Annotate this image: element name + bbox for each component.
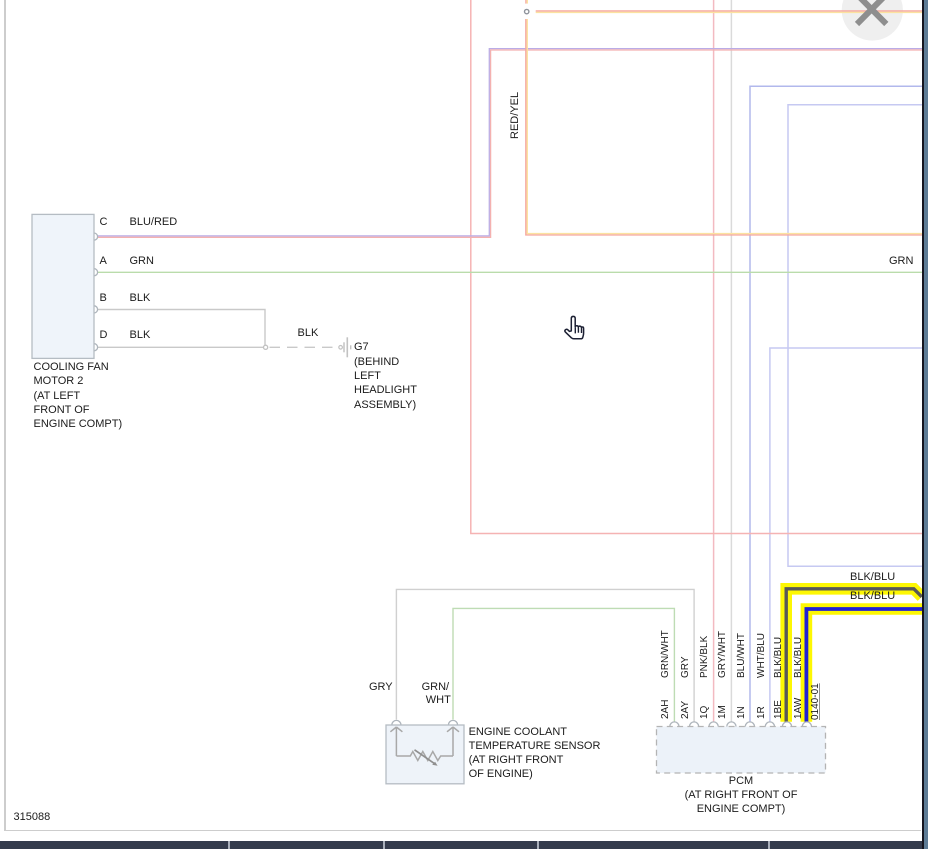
label G7 ground [354, 340, 417, 411]
label GRN right [889, 256, 913, 267]
page border left [4, 0, 6, 831]
thermistor internals [390, 727, 459, 766]
wire BLU/WHT 1N [750, 86, 922, 722]
right sidebar [922, 0, 924, 849]
pin label A [100, 256, 107, 267]
wire RED/YEL main red stripe [526, 19, 923, 235]
bar separator 2 [383, 841, 385, 849]
label RED/YEL rotated [510, 139, 557, 150]
mouse cursor [565, 316, 584, 338]
label BLK/BLU lower [850, 591, 895, 602]
ground G7 symbol [339, 337, 351, 357]
pin label 1R [757, 719, 770, 729]
pin label 1M [718, 719, 732, 729]
label BLK mid [298, 328, 319, 339]
wire RED/YEL main yellow stripe [527, 19, 922, 234]
wire label BLK/BLU [774, 678, 815, 688]
wire label GRN/WHT [661, 678, 709, 688]
pin label 1N [737, 719, 750, 729]
pin label B [100, 293, 107, 304]
wire label BLK/BLU [794, 678, 835, 688]
label BLK [130, 330, 151, 341]
wire BLK dashed to ground [270, 346, 337, 348]
label GRY sensor [369, 682, 393, 693]
wire BLK/BLU 1AW blue core [806, 609, 922, 722]
wire label BLU/WHT [737, 678, 782, 688]
wire GRN/WHT sensor to PCM 2AH [453, 608, 674, 721]
bar separator 1 [228, 841, 230, 849]
close button X glyph [857, 0, 886, 24]
wire label GRY [681, 678, 703, 688]
wire label WHT/BLU [757, 678, 802, 688]
label WHT sensor [426, 695, 451, 706]
connector PCM box [657, 722, 826, 773]
close button circle [842, 0, 903, 41]
junction circle BLK splice [264, 345, 268, 349]
wire label GRY/WHT [718, 678, 765, 688]
label GRN [130, 256, 154, 267]
sensor ENGINE COOLANT TEMPERATURE SENSOR box [386, 720, 464, 783]
wire RED/YEL red stripe top stub [526, 0, 527, 4]
bar separator 4 [768, 841, 770, 849]
label BLK [130, 293, 151, 304]
wire BLK/BLU 1BE yellow highlight [786, 589, 922, 722]
bottom table header bar [0, 841, 922, 849]
wire GRY/WHT 1M vertical [730, 0, 732, 722]
label COOLING FAN MOTOR 2 [34, 360, 123, 430]
pin label 2AH [661, 719, 680, 729]
pin label 1BE [774, 719, 793, 729]
wire GRN pin A horizontal [98, 271, 922, 273]
label GRN/ sensor [422, 682, 450, 693]
wire BLK/BLU 1AW yellow highlight [806, 609, 922, 722]
pin label D [100, 330, 108, 341]
wire GRY sensor to PCM 2AY [396, 589, 694, 721]
connector id 0140-01 [811, 720, 848, 730]
label ENGINE COOLANT TEMPERATURE SENSOR [469, 725, 601, 781]
pin label 1AW [794, 719, 815, 729]
bar separator 3 [537, 841, 539, 849]
wire RED/YEL top horizontal [536, 11, 923, 12]
pin label 2AY [681, 719, 699, 729]
wire BLK/BLU 1BE black core [786, 589, 922, 722]
wire BLU/RED red stripe [98, 50, 922, 237]
page border bottom [4, 830, 921, 832]
label BLU/RED [130, 217, 178, 228]
wire WHT/BLU 1R [770, 348, 923, 722]
wire BLU/RED blue stripe [98, 49, 922, 236]
wire WHT/BLU pass-through [788, 105, 922, 567]
wire BLK pin D [98, 346, 263, 348]
label BLK/BLU upper [850, 572, 895, 583]
diagram number 315088 [14, 812, 51, 823]
connector COOLING FAN MOTOR 2 [32, 214, 98, 358]
label PCM [641, 775, 841, 816]
wire label PNK/BLK [700, 678, 742, 688]
wire PNK/BLK 1Q vertical [713, 0, 715, 722]
pin label C [100, 217, 108, 228]
junction node circle at RED/YEL tap [525, 9, 529, 13]
pin label 1Q [700, 719, 713, 729]
wire PNK unnamed [471, 0, 923, 534]
wire BLK pin B [98, 310, 265, 347]
